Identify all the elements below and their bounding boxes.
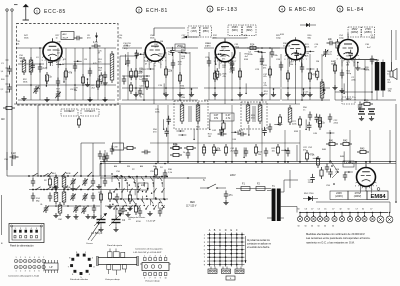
capacitor C11: [142, 76, 146, 85]
switch verticals: [100, 163, 164, 219]
labels elcaps: [298, 226, 335, 228]
trimmer CT7: [73, 205, 87, 214]
stage4 parts fill: [283, 43, 336, 97]
svg-text:C: C: [219, 229, 221, 232]
svg-text:(245V): (245V): [351, 31, 359, 34]
mains switch S10: [200, 184, 226, 189]
svg-text:CONECT.: CONECT.: [85, 110, 96, 113]
electrolytic capacitor CE7: [339, 212, 344, 222]
wire anode U2: [154, 28, 185, 36]
coil bank labels: [36, 198, 79, 221]
fuse F2: [256, 183, 271, 191]
svg-text:RED: RED: [190, 202, 195, 204]
midband parts fill: [155, 109, 297, 136]
svg-text:2: 2: [20, 271, 21, 273]
resistor R28: [254, 144, 257, 156]
rectifier D3 wire: [284, 179, 298, 181]
voltage box B7: [362, 27, 375, 37]
switch contact S1a: [32, 173, 38, 177]
svg-text:1M: 1M: [245, 37, 248, 39]
switch box C58: [98, 143, 124, 162]
switch bank diagonals: [113, 188, 164, 210]
node row: [203, 161, 289, 163]
trimmer CT2: [55, 91, 61, 99]
svg-text:1: 1: [144, 256, 145, 258]
wire grid stage1: [16, 47, 116, 100]
B+ bus upper: [100, 160, 396, 162]
svg-text:4: 4: [29, 257, 30, 259]
node n3: [252, 47, 271, 49]
svg-text:8: 8: [155, 278, 156, 280]
svg-text:AM: AM: [140, 165, 143, 168]
label t1: [20, 57, 97, 91]
svg-text:470k: 470k: [309, 154, 315, 157]
svg-text:C7: C7: [332, 209, 334, 211]
svg-text:Las tensiones entre paréntesis: Las tensiones entre paréntesis correspon…: [306, 236, 370, 240]
tube U5 EL-84: [337, 37, 361, 67]
voltage box B8: [342, 97, 355, 104]
svg-text:R51 2700: R51 2700: [304, 193, 314, 195]
matrix box 4: [226, 276, 235, 280]
svg-text:4.7k: 4.7k: [226, 117, 231, 120]
IF transformer T3: [174, 101, 208, 129]
resistor R25: [202, 144, 205, 156]
ground G4: [102, 97, 107, 102]
svg-text:50: 50: [348, 209, 350, 211]
svg-text:4: 4: [29, 271, 30, 273]
capacitor C39: [264, 148, 268, 157]
midband lower fill: [153, 125, 250, 140]
voltage box B14: [348, 191, 367, 200]
supply bus: [300, 202, 390, 213]
tube U6 EM84: [355, 165, 378, 194]
svg-text:50: 50: [332, 226, 334, 228]
svg-text:6: 6: [144, 278, 145, 280]
ground G5: [133, 92, 138, 97]
svg-text:R43: R43: [360, 147, 365, 150]
node n1: [39, 63, 106, 101]
screw mark: [377, 188, 380, 191]
capacitor C38: [244, 148, 248, 157]
resistor R29 box: [358, 99, 373, 110]
coil L1: [22, 57, 26, 75]
capacitor C1a: [38, 64, 48, 73]
svg-text:R14: R14: [250, 43, 255, 46]
capacitor C20: [300, 64, 304, 73]
electrolytic capacitor CE1: [297, 212, 302, 222]
electrolytic capacitor CE3: [311, 212, 316, 222]
svg-text:(90V): (90V): [232, 29, 238, 32]
svg-text:AM: AM: [1, 118, 5, 121]
resistor R5 hatched: [110, 51, 114, 83]
ground G9: [237, 92, 242, 97]
label t5: [365, 44, 371, 49]
coil L7: [62, 174, 66, 190]
arrow agc: [183, 36, 198, 39]
svg-text:(220V): (220V): [335, 195, 343, 198]
elcap top labels: [298, 209, 373, 211]
label 2x500: [91, 232, 103, 235]
switch contact S4a: [46, 187, 52, 191]
capacitor C0.22: [4, 152, 19, 161]
coil L5: [288, 105, 292, 125]
svg-text:R41: R41: [329, 139, 334, 142]
svg-text:C7: C7: [370, 209, 372, 211]
switch contact S3a: [35, 187, 41, 191]
tuning capacitor C1: [91, 213, 107, 232]
resistor R24: [77, 116, 80, 128]
FM tuner shield box: [17, 24, 119, 106]
tube label 1 ECC-85: [34, 8, 66, 15]
capacitor C48: [223, 191, 233, 205]
coil L6: [54, 175, 58, 190]
capacitor C19: [279, 62, 283, 71]
svg-text:Zócalo de válvulas: Zócalo de válvulas: [70, 279, 89, 281]
label conexiones valv: [133, 248, 164, 255]
matrix row numbers: [204, 235, 206, 267]
svg-text:Panel de alimentación: Panel de alimentación: [10, 245, 34, 248]
resistor R22: [298, 116, 301, 128]
conexion box B12: [81, 109, 99, 116]
keyboard matrix grid: [207, 233, 245, 267]
voltage box B3: [200, 26, 212, 37]
resistor R12: [213, 70, 221, 82]
svg-text:Conexiones de los paquetes: Conexiones de los paquetes: [135, 248, 164, 251]
capacitor C41b: [103, 178, 107, 187]
label sw: [116, 167, 163, 173]
diode D2 OA85: [303, 193, 318, 201]
diode D1: [300, 23, 316, 27]
resistor R26: [212, 144, 220, 156]
capacitor C41: [91, 178, 95, 187]
svg-text:117-125 V: 117-125 V: [186, 206, 197, 208]
ground G6: [163, 92, 168, 97]
svg-text:(80V): (80V): [246, 29, 252, 32]
ground G2: [44, 97, 49, 102]
tiny labels band: [16, 41, 392, 99]
label t4: [276, 34, 319, 63]
trimmer CT4: [82, 178, 88, 186]
svg-text:22n: 22n: [328, 38, 333, 41]
svg-text:2: 2: [149, 256, 150, 258]
tube socket J4: [68, 252, 96, 279]
capacitor C2a: [56, 78, 60, 87]
resistor R2: [64, 68, 72, 80]
svg-text:LP: LP: [49, 266, 52, 269]
capacitor C17: [230, 60, 234, 69]
svg-text:5: 5: [165, 256, 166, 258]
coil bank extra contacts: [47, 172, 100, 207]
left column parts: [1, 63, 15, 121]
right subblock: [100, 183, 148, 215]
hline mid: [150, 142, 300, 144]
transistor-ish net: [330, 160, 339, 185]
svg-text:4.7p: 4.7p: [93, 41, 98, 44]
ground G8: [212, 92, 217, 97]
stage5 parts fill: [336, 39, 370, 94]
capacitor C27: [327, 38, 336, 45]
svg-text:C5: C5: [318, 209, 320, 211]
svg-text:AFC: AFC: [63, 33, 68, 36]
svg-text:C6: C6: [305, 209, 307, 211]
resistor R21: [278, 114, 281, 126]
resistor R23: [318, 118, 325, 130]
svg-text:L40: L40: [141, 184, 146, 187]
tube label 5 EL-84: [337, 6, 364, 13]
resistor R42 box: [340, 139, 352, 145]
svg-text:L-61-50-LOW y L-61-50-SUP: L-61-50-LOW y L-61-50-SUP: [133, 252, 162, 254]
svg-text:2: 2: [20, 257, 21, 259]
pot ajuste box: [343, 161, 354, 167]
capacitor C35: [308, 112, 312, 121]
svg-text:OM: OM: [58, 219, 62, 221]
svg-text:namiento en O.C. y las restant: namiento en O.C. y las restantes en O.M.: [306, 240, 355, 244]
B+ bus lower: [100, 163, 396, 165]
label panel alim: [10, 245, 34, 248]
switch contact S2a: [43, 173, 49, 177]
svg-text:2: 2: [138, 8, 140, 12]
tube label 2 ECH-81: [136, 7, 168, 14]
label panel ajuste: [107, 244, 123, 247]
coil bank extra parts: [43, 191, 102, 213]
svg-text:50: 50: [305, 226, 307, 228]
label zocalo: [70, 279, 89, 281]
svg-text:Vista por abajo: Vista por abajo: [145, 280, 160, 283]
svg-text:1M: 1M: [316, 61, 319, 63]
capacitor C37: [234, 148, 238, 157]
resistor R8: [134, 68, 142, 80]
svg-text:C7: C7: [311, 209, 313, 211]
resistor R43 box: [357, 147, 369, 153]
feed wires: [158, 105, 390, 162]
svg-text:5: 5: [34, 271, 35, 273]
svg-text:1M: 1M: [208, 136, 211, 138]
ground row1: [53, 184, 101, 191]
label vista1: [105, 278, 120, 281]
stage1 parts fill: [19, 55, 108, 92]
switch row A contacts: [116, 177, 163, 188]
resistor R45: [316, 156, 319, 168]
coil L2: [29, 57, 33, 75]
trimmer CT5: [70, 193, 76, 201]
tube U4 EABC-80: [284, 37, 307, 67]
matrix arrow: [245, 236, 247, 263]
electrolytic capacitor CE4: [317, 212, 322, 222]
capacitor C34: [268, 124, 272, 133]
conexion box B11: [61, 109, 78, 116]
wire u3 link: [235, 47, 285, 49]
svg-text:contactos se aplican en: contactos se aplican en: [247, 243, 272, 246]
svg-text:Panel de ajuste: Panel de ajuste: [107, 244, 123, 247]
stage2 parts fill: [123, 43, 194, 97]
svg-text:(1N7): (1N7): [191, 30, 197, 33]
coil L8: [54, 190, 58, 205]
wire grid stage4: [281, 54, 330, 101]
wire t2 bottom: [377, 91, 383, 101]
res boxes row: [170, 143, 196, 156]
capacitor C5a: [103, 72, 107, 81]
electrolytic C50: [358, 109, 365, 121]
svg-text:(290V): (290V): [354, 195, 362, 198]
svg-text:1: 1: [36, 9, 38, 13]
ground G7: [177, 92, 182, 97]
svg-text:220V: 220V: [230, 174, 236, 177]
svg-text:50: 50: [324, 226, 326, 228]
svg-text:C 4-20 pF: C 4-20 pF: [146, 221, 156, 223]
svg-text:9: 9: [160, 278, 161, 280]
svg-text:7: 7: [43, 257, 44, 259]
IF transformer T4: [241, 102, 267, 129]
svg-text:470: 470: [217, 74, 222, 77]
svg-text:4: 4: [281, 7, 283, 11]
ground bus: [14, 103, 300, 105]
switch bank rail 1: [112, 176, 168, 178]
svg-text:D: D: [225, 229, 227, 232]
wire grid stage3: [204, 48, 280, 101]
stage2 mixer lines: [154, 61, 348, 104]
switch top parts: [102, 143, 190, 162]
speaker LS1: [390, 62, 397, 80]
svg-text:1M: 1M: [346, 64, 349, 66]
resistor R30: [276, 144, 279, 156]
trimmer C ajuste: [323, 49, 329, 57]
svg-text:7: 7: [149, 278, 150, 280]
svg-text:30 pF: 30 pF: [63, 37, 69, 39]
label box top: [61, 32, 74, 40]
resistor R41 box: [326, 139, 338, 145]
wire osc: [120, 56, 138, 100]
svg-text:CONECT.: CONECT.: [64, 110, 75, 113]
capacitor C10: [126, 58, 130, 67]
coil bus row2: [29, 189, 100, 191]
capacitor C29: [370, 56, 380, 65]
capacitor C16: [207, 58, 211, 67]
left tick: [14, 4, 18, 6]
wire grid stage5: [335, 60, 396, 101]
svg-text:47n: 47n: [229, 194, 234, 197]
right edge wire: [290, 104, 397, 203]
matrix box 2: [222, 269, 231, 274]
em84 parts fill: [303, 147, 353, 184]
svg-text:7: 7: [43, 271, 44, 273]
svg-text:32: 32: [362, 209, 364, 211]
switch bank rail 2: [112, 198, 168, 200]
resistor R18: [308, 70, 318, 82]
electrolytic capacitor CE11: [370, 212, 375, 222]
svg-text:6: 6: [38, 271, 39, 273]
svg-text:BOB: BOB: [66, 173, 71, 175]
voltage box B1: [188, 26, 200, 37]
svg-text:1: 1: [15, 271, 16, 273]
capacitor C6a: [92, 41, 101, 48]
ground G1: [21, 96, 26, 101]
label paquete: [8, 275, 39, 278]
svg-text:FM: FM: [127, 166, 130, 168]
ground G3: [87, 97, 92, 102]
label debajo: [128, 217, 156, 223]
electrolytic C51: [368, 109, 375, 121]
svg-text:4: 4: [160, 256, 161, 258]
svg-text:2.2p: 2.2p: [43, 67, 48, 70]
aerial terminal A1: [6, 9, 8, 170]
capacitor C12: [171, 60, 175, 69]
right mid parts fill: [303, 107, 339, 134]
switch row B contacts: [115, 199, 163, 206]
tube U3 EF-183: [214, 39, 237, 69]
svg-text:Vista por abajo: Vista por abajo: [105, 278, 120, 281]
voltage box B5: [243, 25, 257, 36]
wire u3 top: [212, 38, 245, 42]
label t7: [308, 147, 345, 187]
wire fm bus: [18, 63, 110, 65]
label red: [186, 202, 197, 208]
svg-text:ECH-81: ECH-81: [146, 8, 168, 14]
svg-text:5: 5: [339, 7, 341, 11]
wire t2 top: [348, 30, 396, 71]
top value labels row: [24, 35, 376, 39]
resistor R14: [247, 43, 259, 49]
bus taps: [119, 161, 391, 163]
svg-text:BOB: BOB: [66, 187, 71, 189]
svg-text:3: 3: [25, 271, 26, 273]
switch bank labels: [114, 165, 156, 168]
capacitor C33: [238, 129, 247, 136]
tube label 4 EABC-80: [279, 6, 316, 13]
valve strip connector J5: [140, 256, 171, 280]
heater bus: [99, 164, 101, 177]
below bus parts: [154, 163, 172, 179]
switch speck texture: [111, 173, 165, 211]
tube U1 ECC-85: [41, 39, 64, 68]
power transformer T1: [267, 180, 297, 221]
svg-text:32: 32: [340, 209, 342, 211]
svg-text:el sentido de la flecha: el sentido de la flecha: [247, 246, 270, 249]
svg-text:R42: R42: [343, 139, 348, 142]
electrolytic capacitor CE2: [304, 212, 309, 222]
ground G10: [259, 92, 264, 97]
capacitor C18: [260, 56, 264, 65]
value box B9: [210, 113, 222, 121]
tube U2 ECH-81: [144, 39, 167, 69]
electrolytic capacitor CE5: [324, 212, 329, 222]
svg-text:5: 5: [34, 257, 35, 259]
matrix note: [247, 239, 272, 249]
ground row3: [53, 213, 96, 219]
trimmer CT6: [82, 193, 88, 201]
resistor R9: [164, 66, 172, 78]
svg-text:Al pulsar las teclas los: Al pulsar las teclas los: [247, 239, 271, 242]
svg-text:R26: R26: [173, 143, 178, 146]
svg-text:10: 10: [164, 278, 166, 280]
capacitor C42b: [91, 193, 95, 202]
svg-text:EL-84: EL-84: [347, 7, 364, 13]
resistor R1: [45, 72, 52, 84]
wire fm bottom bus: [18, 99, 115, 101]
svg-text:Debajo del chasis: Debajo del chasis: [128, 217, 146, 219]
svg-text:Conexiones del paquete L-51-A: Conexiones del paquete L-51-A: [8, 275, 39, 278]
pushbutton connector J2: [14, 257, 45, 273]
coil bus row1: [28, 175, 118, 177]
capacitor C46: [325, 164, 329, 173]
antenna AM: [23, 4, 29, 20]
trimmer CT3: [70, 178, 76, 186]
antenna FM mark: [95, 33, 98, 43]
svg-text:1M: 1M: [160, 41, 163, 43]
svg-text:3: 3: [155, 256, 156, 258]
svg-text:C7: C7: [356, 209, 358, 211]
capacitor C4a: [88, 68, 92, 77]
coil L10: [58, 202, 62, 216]
